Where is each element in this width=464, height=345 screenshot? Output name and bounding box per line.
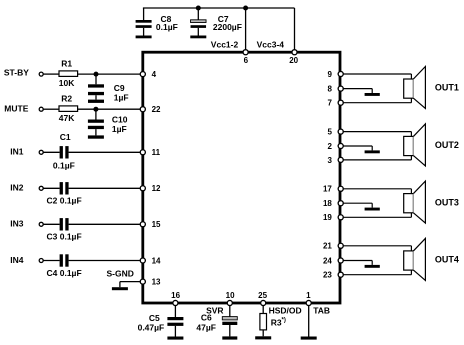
svg-text:S-GND: S-GND [107,269,134,279]
terminal ST-BY [39,72,43,76]
wire: pin 19 to speaker - [343,216,411,218]
ground (TAB) [301,337,317,340]
node: MUTE/C10 junction [93,107,98,112]
wire [69,223,141,225]
speaker OUT4 driver [404,251,414,270]
speaker OUT4 cone [413,238,425,280]
svg-text:MUTE: MUTE [4,104,28,114]
svg-text:15: 15 [152,220,161,229]
wire: pin 24 to ground [343,260,372,262]
terminal IN1 [39,150,43,154]
ground (C7) [190,36,206,39]
wire: pin 6 supply drop [245,8,247,50]
svg-text:IN3: IN3 [10,219,23,229]
wire: pin 7 to speaker - [343,102,411,104]
capacitor C4 0.1uF [60,254,63,266]
svg-text:22: 22 [152,105,161,114]
ground (OUT4 pin 24) [365,265,380,268]
svg-text:OUT2: OUT2 [435,140,459,150]
svg-text:21: 21 [323,242,332,251]
capacitor C9 1uF [95,74,97,84]
svg-text:IN2: IN2 [10,183,23,193]
wire: speaker terminal link [410,132,412,160]
pin 9 [338,71,343,76]
pin 4 [140,72,145,77]
pin 14 [140,258,145,263]
svg-text:10: 10 [226,291,235,300]
wire: pin 5 to speaker + [343,131,411,133]
svg-text:Vcc3-4: Vcc3-4 [257,39,285,49]
wire [43,151,60,153]
IC body U1 (power amplifier) [143,52,340,303]
svg-text:R1: R1 [61,59,72,69]
svg-text:8: 8 [327,85,332,94]
terminal IN4 [39,259,43,263]
capacitor C10 1uF [95,109,97,119]
svg-text:10K: 10K [59,78,75,88]
terminal IN3 [39,222,43,226]
capacitor C1 0.1uF [60,146,63,158]
svg-text:19: 19 [323,213,332,222]
pin 15 [140,222,145,227]
speaker OUT3 driver [404,194,414,213]
svg-text:OUT1: OUT1 [435,83,459,93]
wire [43,223,60,225]
svg-text:6: 6 [244,56,249,65]
terminal IN2 [39,186,43,190]
capacitor C8 0.1uF [143,8,145,20]
speaker OUT2 cone [413,124,425,166]
pin 16 [173,300,178,305]
ground (OUT1 pin 8) [365,93,380,96]
svg-text:HSD/OD: HSD/OD [269,306,302,316]
wire: speaker terminal link [410,189,412,218]
wire [43,187,60,189]
capacitor C2 0.1uF [60,182,63,194]
svg-text:Vcc1-2: Vcc1-2 [211,39,239,49]
svg-text:24: 24 [323,256,332,265]
pin 17 [338,186,343,191]
pin 23 [338,272,343,277]
wire [69,187,141,189]
resistor R3 [262,305,264,314]
ground (C5) [167,337,183,340]
speaker OUT2 driver [404,136,414,155]
svg-text:13: 13 [152,278,161,287]
svg-text:C6: C6 [201,313,212,323]
svg-text:C1: C1 [60,132,71,142]
pin 3 [338,157,343,162]
wire: speaker terminal link [410,246,412,275]
svg-text:R2: R2 [61,94,72,104]
pin 2 [338,143,343,148]
svg-text:12: 12 [152,184,161,193]
ground (C8) [136,36,152,39]
wire: top supply rail [143,7,295,9]
svg-text:ST-BY: ST-BY [4,68,29,78]
ground (C9) [88,100,104,103]
ground (OUT2 pin 2) [365,150,380,153]
wire: speaker terminal link [410,74,412,103]
svg-text:1: 1 [306,291,311,300]
svg-text:OUT3: OUT3 [435,197,459,207]
wire: pin 21 to speaker + [343,245,411,247]
capacitor C6 47uF (electrolytic) [229,305,231,317]
capacitor C7 2200uF (electrolytic) [197,9,199,20]
speaker OUT3 cone [413,181,425,223]
resistor R2 47K [59,106,78,112]
pin 25 / HSD/OD [261,300,266,305]
pin 21 [338,243,343,248]
svg-text:14: 14 [152,256,161,265]
pin 24 [338,258,343,263]
wire [78,73,141,75]
pin 8 [338,86,343,91]
svg-text:23: 23 [323,271,332,280]
wire: pin 18 to ground [343,202,372,204]
pin 18 [338,201,343,206]
pin 5 [338,129,343,134]
ground (OUT3 pin 18) [365,208,380,211]
wire [69,260,141,262]
svg-text:25: 25 [258,291,267,300]
wire: pin 8 to ground [343,88,372,90]
svg-text:20: 20 [289,56,298,65]
wire: pin 2 to ground [343,145,372,147]
svg-text:0.47µF: 0.47µF [138,322,165,332]
svg-text:18: 18 [323,199,332,208]
svg-text:IN1: IN1 [10,147,23,157]
wire [43,260,60,262]
ground (R3) [255,336,271,339]
wire: pin 3 to speaker - [343,159,411,161]
pin 12 [140,186,145,191]
svg-text:C4 0.1µF: C4 0.1µF [47,268,82,278]
svg-text:17: 17 [323,185,332,194]
resistor R1 10K [59,71,78,77]
svg-text:47µF: 47µF [196,322,216,332]
pin 10 / SVR [227,300,232,305]
svg-text:2: 2 [327,142,332,151]
wire: TAB to ground [308,305,310,337]
wire: pin 13 to signal ground [120,281,141,283]
wire [69,151,141,153]
svg-text:OUT4: OUT4 [435,255,459,265]
svg-text:7: 7 [327,99,332,108]
svg-text:2200µF: 2200µF [213,22,242,32]
wire [78,108,141,110]
pin 20 [292,50,297,55]
svg-text:16: 16 [171,291,180,300]
svg-text:9: 9 [327,70,332,79]
svg-text:0.1µF: 0.1µF [156,22,178,32]
ground (C10) [88,135,104,138]
svg-text:0.1µF: 0.1µF [53,160,75,170]
pin 19 [338,215,343,220]
node: ST-BY/C9 junction [94,72,99,77]
node: junction above pin 6 [243,6,248,11]
capacitor C3 0.1uF [60,218,63,230]
svg-text:4: 4 [152,70,157,79]
wire: pin 23 to speaker - [343,274,411,276]
pin 6 [243,50,248,55]
pin 13 [140,279,145,284]
pin 1 / TAB [306,300,311,305]
ground S-GND [112,287,128,290]
node: junction at C7 top [196,6,201,11]
speaker OUT1 cone [413,67,425,109]
svg-text:11: 11 [152,148,161,157]
svg-text:TAB: TAB [313,306,330,316]
terminal MUTE [39,107,43,111]
wire: pin 17 to speaker + [343,188,411,190]
wire [43,73,59,75]
svg-text:R3: R3 [271,318,282,328]
pin 22 [140,107,145,112]
svg-text:C2 0.1µF: C2 0.1µF [47,196,82,206]
wire: pin 9 to speaker + [343,73,411,75]
capacitor C5 0.47uF [174,305,176,317]
svg-text:1µF: 1µF [112,124,127,134]
pin 11 [140,150,145,155]
svg-text:3: 3 [327,156,332,165]
svg-text:IN4: IN4 [10,255,23,265]
svg-text:*): *) [282,318,286,324]
wire [43,108,59,110]
ground (C6) [222,336,237,339]
svg-text:5: 5 [327,128,332,137]
svg-text:47K: 47K [59,113,75,123]
svg-text:C3 0.1µF: C3 0.1µF [47,232,82,242]
pin 7 [338,100,343,105]
svg-text:1µF: 1µF [114,92,129,102]
speaker OUT1 driver [404,79,414,98]
